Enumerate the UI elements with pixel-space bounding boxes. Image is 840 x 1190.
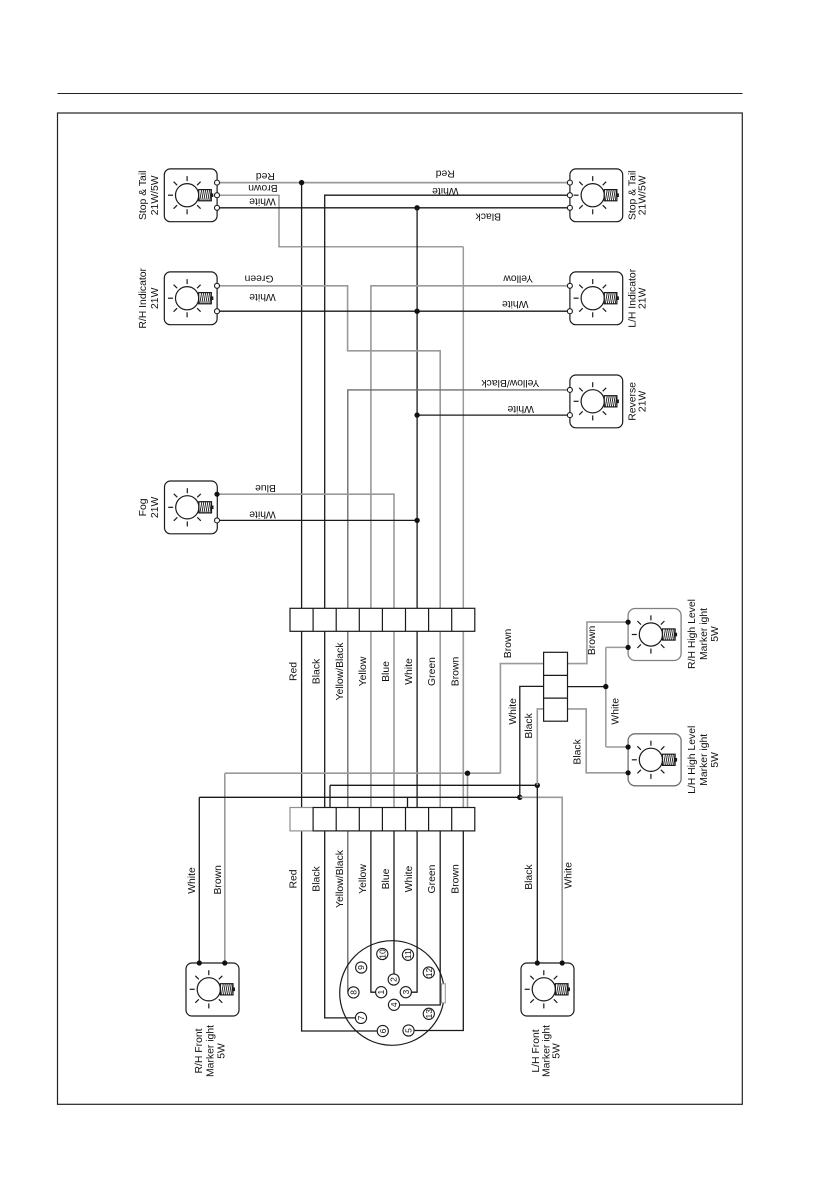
pin: Stop & Tail right Red: [567, 180, 572, 185]
wire White (Reverse lamp): [417, 414, 570, 416]
pin: R/H front marker Brown terminal: [222, 960, 227, 965]
pin: L/H high level Black terminal: [626, 770, 631, 775]
wire White marker horizontal: [199, 796, 520, 798]
svg-text:White: White: [508, 698, 519, 725]
svg-text:6: 6: [378, 1028, 388, 1033]
wire Green plug lead to pin 4: [400, 831, 441, 1005]
pin: Stop & Tail right Black: [567, 205, 572, 210]
wire White to L/H high level upper terminal: [606, 746, 628, 748]
lamp: R/H High Level Marker light 5W: [628, 609, 681, 661]
svg-text:Yellow: Yellow: [358, 656, 369, 686]
svg-text:White: White: [249, 508, 276, 519]
wire Yellow (L/H Indicator to cell 4): [371, 286, 571, 609]
svg-text:Red: Red: [435, 168, 454, 179]
node Red junction: [299, 180, 304, 185]
svg-text:Green: Green: [427, 657, 438, 686]
wire Yellow/Black (Reverse lamp to cell 3): [348, 390, 571, 608]
lamp: Reverse 21W: [570, 375, 623, 428]
pin: Stop & Tail left Red: [215, 180, 220, 185]
wire White to R/H high level lower terminal: [606, 646, 628, 648]
svg-text:Red: Red: [289, 662, 300, 681]
wire White gray extension to L/H front marker: [520, 797, 562, 963]
plug pin 3: [400, 987, 411, 998]
pin: Stop & Tail left White: [215, 205, 220, 210]
wire Black drop into strip2 cell 2: [329, 785, 331, 807]
pin: L/H front marker White terminal: [560, 960, 565, 965]
svg-text:Red: Red: [289, 869, 300, 888]
svg-text:5W: 5W: [552, 1043, 563, 1059]
svg-text:Black: Black: [312, 865, 323, 891]
svg-text:1: 1: [376, 990, 386, 995]
svg-text:21W: 21W: [638, 287, 649, 309]
wire Blue between junction strips: [393, 631, 395, 807]
svg-text:5: 5: [404, 1028, 414, 1033]
svg-text:L/H High Level: L/H High Level: [687, 726, 698, 794]
wire Red vertical drop to junction box cell 1: [301, 183, 303, 609]
svg-text:Brown: Brown: [450, 657, 461, 687]
wire Brown R/H front marker drop: [224, 773, 226, 963]
svg-text:Fog: Fog: [138, 498, 149, 516]
svg-text:Black: Black: [524, 864, 535, 890]
wire White (indicator pair horizontal): [217, 310, 570, 312]
pin: L/H Indicator White: [567, 309, 572, 314]
plug pin 8: [348, 987, 359, 998]
pin: R/H front marker White terminal: [197, 960, 202, 965]
pin: R/H high level Brown terminal: [626, 620, 631, 625]
wire Brown marker feed horizontal: [225, 772, 501, 774]
pin: Stop & Tail left Brown: [215, 193, 220, 198]
wire Black between junction strips: [324, 631, 326, 807]
svg-text:White: White: [187, 867, 198, 894]
wire White drop into strip2 cell 6: [407, 797, 409, 807]
wire Red between junction strips: [301, 631, 303, 807]
svg-text:21W: 21W: [150, 287, 161, 309]
svg-text:Marker ight: Marker ight: [699, 608, 710, 660]
wire Brown drop into strip2 cell 8: [467, 773, 469, 807]
junction strip 2 (8-way connector block, first cell gray): [290, 808, 475, 831]
wire Green between junction strips: [439, 631, 441, 807]
svg-text:White: White: [507, 403, 534, 414]
svg-text:3: 3: [401, 990, 411, 995]
node White bus top junction: [414, 205, 419, 210]
node White high level junction: [603, 684, 608, 689]
svg-text:Black: Black: [573, 738, 584, 764]
wire Blue (Fog lamp to cell 5): [217, 494, 394, 608]
pin: Reverse White: [567, 413, 572, 418]
svg-text:21W: 21W: [638, 391, 649, 413]
svg-text:Yellow/Black: Yellow/Black: [481, 377, 540, 388]
plug key notch: [442, 984, 446, 1003]
svg-text:White: White: [404, 658, 415, 685]
wire White (Fog lamp): [217, 519, 417, 521]
plug pin 10: [377, 948, 388, 959]
pin: Reverse Yellow/Black: [567, 387, 572, 392]
plug pin 4: [388, 999, 399, 1010]
svg-text:Stop & Tail: Stop & Tail: [138, 171, 149, 220]
svg-text:Yellow/Black: Yellow/Black: [335, 642, 346, 701]
pin: R/H Indicator Green: [215, 283, 220, 288]
node White reverse junction: [414, 412, 419, 417]
wire White high level vertical: [605, 647, 607, 747]
wire White between junction strips: [416, 631, 418, 807]
svg-text:White: White: [404, 866, 415, 893]
node Brown marker junction: [465, 771, 470, 776]
lamp: Stop & Tail right 21W/5W: [570, 169, 623, 222]
svg-text:Brown: Brown: [450, 864, 461, 894]
plug pin 6: [377, 1025, 388, 1036]
svg-text:Blue: Blue: [381, 868, 392, 889]
svg-text:10: 10: [377, 949, 387, 959]
wire Yellow plug lead to pin 1: [371, 831, 376, 992]
wire White plug lead to pin 3: [411, 831, 417, 992]
lamp: R/H Front Marker light 5W: [186, 963, 239, 1016]
lamp: L/H Indicator 21W: [570, 272, 623, 325]
plug pin 5: [403, 1025, 414, 1036]
wire Green (R/H Indicator, jogged to cell 7): [217, 286, 440, 609]
top rule: [58, 93, 743, 95]
wire Red plug lead to pin 6: [302, 831, 378, 1031]
wire White R/H front marker drop: [198, 797, 200, 963]
svg-text:Marker ight: Marker ight: [699, 734, 710, 786]
svg-text:White: White: [249, 196, 276, 207]
svg-text:White: White: [502, 298, 529, 309]
plug pin 1: [376, 987, 387, 998]
svg-text:Green: Green: [427, 864, 438, 893]
svg-text:Marker ight: Marker ight: [206, 1025, 217, 1077]
wire Black riser to splice block (gray): [537, 709, 543, 785]
svg-text:2: 2: [389, 977, 399, 982]
node White indicator junction: [414, 309, 419, 314]
wire Black plug lead to pin 7: [325, 831, 356, 1018]
plug pin 2: [388, 974, 399, 985]
svg-text:Red: Red: [256, 170, 275, 181]
junction strip 1 (8-way connector block): [290, 608, 475, 631]
svg-text:11: 11: [403, 950, 413, 959]
wire Yellow/Black plug lead to pin 8: [347, 831, 349, 992]
svg-text:21W/5W: 21W/5W: [150, 175, 161, 215]
svg-text:White: White: [432, 185, 459, 196]
wire Yellow between junction strips: [370, 631, 372, 807]
wire Brown splice to R/H high level marker: [568, 622, 629, 664]
svg-text:Blue: Blue: [255, 482, 276, 493]
wire Brown riser to splice block: [500, 664, 543, 774]
wire Brown (left Stop & Tail): [217, 195, 463, 247]
svg-text:Blue: Blue: [381, 661, 392, 682]
pin: Stop & Tail right White: [567, 193, 572, 198]
svg-text:R/H Indicator: R/H Indicator: [138, 267, 149, 328]
svg-text:13: 13: [424, 1009, 434, 1019]
wire Blue plug lead to pin 2: [393, 831, 395, 974]
wire Red (tail feed, gray, left Stop & Tail to right Stop & Tail): [217, 182, 570, 184]
wire Brown plug lead to pin 5: [414, 831, 463, 1031]
svg-text:L/H Front: L/H Front: [531, 1029, 542, 1072]
wire Black (right Stop & Tail to cell 2): [325, 195, 571, 608]
svg-text:5W: 5W: [216, 1043, 227, 1059]
svg-text:21W: 21W: [150, 497, 161, 519]
node Black marker junction: [535, 783, 540, 788]
svg-text:21W/5W: 21W/5W: [638, 175, 649, 215]
wire White riser to splice block: [520, 686, 544, 797]
pin: Fog White: [215, 518, 220, 523]
solid terminals: [197, 492, 631, 966]
svg-text:Black: Black: [312, 658, 323, 684]
lamp: L/H High Level Marker light 5W: [628, 734, 681, 786]
pin: R/H Indicator White: [215, 309, 220, 314]
wire Yellow/Black between junction strips: [347, 631, 349, 807]
node White marker junction: [517, 795, 522, 800]
lamp: Stop & Tail left 21W/5W: [164, 169, 217, 222]
svg-text:Brown: Brown: [587, 625, 598, 655]
plug pin 7: [355, 1012, 366, 1023]
svg-text:5W: 5W: [710, 752, 721, 768]
lamp: Fog 21W: [165, 481, 218, 534]
svg-text:12: 12: [424, 968, 434, 978]
plug pin 11: [402, 949, 413, 960]
13-pin plug connector circle: [340, 941, 445, 1046]
svg-text:9: 9: [356, 965, 366, 970]
wire Black L/H front marker drop: [536, 785, 538, 963]
svg-text:R/H Front: R/H Front: [194, 1028, 205, 1073]
pin: L/H high level White terminal: [626, 744, 631, 749]
svg-text:Black: Black: [524, 712, 535, 738]
svg-text:Brown: Brown: [503, 629, 514, 659]
wire White bus vertical: [416, 208, 418, 609]
svg-text:5W: 5W: [710, 626, 721, 642]
svg-text:Black: Black: [475, 210, 501, 221]
svg-text:Yellow/Black: Yellow/Black: [335, 849, 346, 908]
plug pin 9: [356, 962, 367, 973]
pin: Fog Blue terminal: [214, 492, 219, 497]
svg-text:R/H High Level: R/H High Level: [687, 599, 698, 669]
splice block (3-way) for marker lights: [544, 652, 568, 721]
lamp: L/H Front Marker light 5W: [521, 963, 574, 1016]
terminal pins (open circles) left lamps: [215, 180, 573, 523]
wire White bus horizontal (left Stop & Tail White to right Stop & Tail): [217, 207, 570, 209]
wire Black marker horizontal: [330, 784, 537, 786]
svg-text:White: White: [611, 698, 622, 725]
svg-text:Brown: Brown: [248, 182, 278, 193]
svg-text:Green: Green: [244, 272, 273, 283]
svg-text:8: 8: [349, 990, 359, 995]
svg-text:4: 4: [389, 1002, 399, 1007]
svg-text:Brown: Brown: [213, 865, 224, 895]
wire White splice to high level markers: [568, 686, 606, 688]
plug pin 12: [423, 967, 434, 978]
pin: L/H front marker Black terminal: [535, 960, 540, 965]
node White fog junction: [414, 518, 419, 523]
pin: R/H high level White terminal: [626, 645, 631, 650]
border frame of schematic: [58, 113, 743, 1104]
pin: L/H Indicator Yellow: [567, 283, 572, 288]
wire Black splice to L/H high level marker: [568, 709, 629, 773]
svg-text:7: 7: [356, 1015, 366, 1020]
svg-text:White: White: [563, 862, 574, 889]
svg-text:Yellow: Yellow: [358, 864, 369, 894]
wire Brown between junction strips: [462, 631, 464, 807]
svg-text:White: White: [249, 291, 276, 302]
lamp: R/H Indicator 21W: [164, 272, 217, 325]
plug pin 13: [423, 1008, 434, 1019]
svg-text:Yellow: Yellow: [503, 272, 533, 283]
